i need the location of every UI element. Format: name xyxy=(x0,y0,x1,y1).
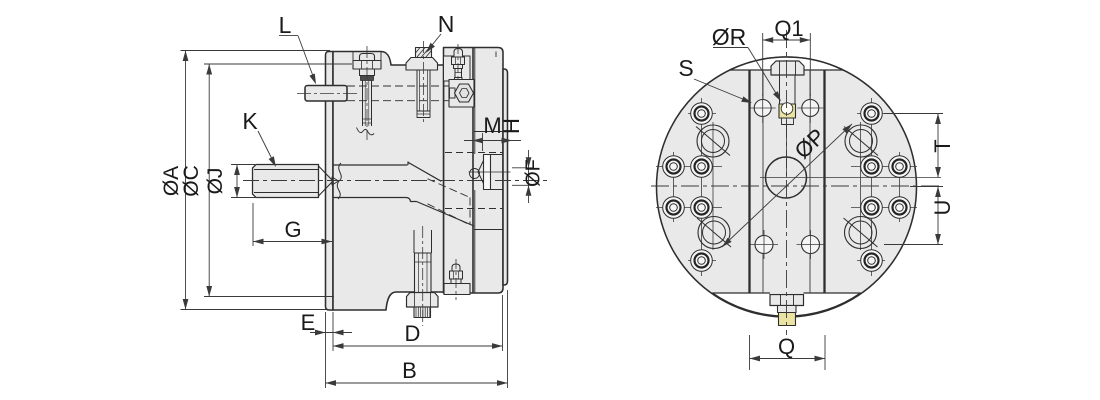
hex socket screw block xyxy=(449,80,474,108)
fitting stud xyxy=(362,81,364,127)
counterbore hole xyxy=(861,156,883,178)
dim M xyxy=(464,140,521,142)
slide channel edges xyxy=(748,70,750,293)
dowel circle xyxy=(470,169,480,179)
bolt N head (hatched) xyxy=(416,48,432,58)
counterbore hole xyxy=(663,197,685,219)
center bore xyxy=(766,157,807,198)
hex socket head xyxy=(450,88,456,98)
port bore xyxy=(491,154,504,156)
bolt N thread end xyxy=(417,111,430,118)
counterbore hole xyxy=(889,197,911,219)
bottom sliver xyxy=(712,293,860,316)
pin centerline xyxy=(297,92,359,94)
fitting ring xyxy=(360,69,375,76)
bottom valve (yellow) xyxy=(779,313,796,326)
top valve (yellow) xyxy=(779,104,796,118)
dim OP diagonal xyxy=(722,124,852,247)
shaft cone tip xyxy=(319,166,333,180)
knurled tip xyxy=(414,307,431,318)
bore step xyxy=(406,198,417,202)
Q1 holes xyxy=(754,100,771,117)
svg-text:ØJ: ØJ xyxy=(204,168,227,195)
dim OJ xyxy=(231,164,255,166)
threaded mount hole xyxy=(845,125,877,157)
counterbore hole xyxy=(889,156,911,178)
counterbore hole xyxy=(663,156,685,178)
port axis xyxy=(469,171,511,173)
shaft bore bottom line xyxy=(333,197,406,199)
counterbore hole xyxy=(691,103,713,125)
top sliver xyxy=(730,57,843,70)
stud tip squiggle xyxy=(357,128,375,135)
dim Q xyxy=(749,335,751,370)
hidden lines in flange xyxy=(445,152,503,154)
svg-text:T: T xyxy=(930,139,955,152)
svg-text:S: S xyxy=(678,55,693,81)
shaft bore top line xyxy=(333,164,408,166)
top chord wings xyxy=(730,69,771,71)
dim OC xyxy=(204,63,352,65)
bottom bolt stud xyxy=(415,253,432,293)
counterbore hole xyxy=(861,197,883,219)
svg-text:H: H xyxy=(499,118,524,134)
counterbore hole xyxy=(861,250,883,272)
fitting centerline xyxy=(366,46,368,140)
svg-text:K: K xyxy=(242,108,258,134)
bottom bolt counterbore xyxy=(413,230,415,253)
main body block xyxy=(333,52,444,311)
bottom grease fitting xyxy=(452,264,460,271)
face plate outer circle xyxy=(657,57,917,317)
dim T xyxy=(884,113,943,115)
hole centerlines xyxy=(656,166,722,168)
fitting dark band xyxy=(361,76,374,81)
fitting hex xyxy=(353,61,381,70)
svg-text:ØC: ØC xyxy=(180,165,203,197)
view centerlines xyxy=(651,185,941,187)
slide strip lines xyxy=(762,70,764,293)
right flange plate xyxy=(444,48,504,294)
dim G xyxy=(252,203,254,246)
bottom tab xyxy=(770,295,804,306)
body left end cap plate xyxy=(326,52,334,311)
port screw xyxy=(484,155,491,190)
dim E xyxy=(310,332,352,334)
svg-text:D: D xyxy=(405,321,421,346)
dim Q1 xyxy=(762,33,764,96)
svg-text:B: B xyxy=(402,358,417,383)
counterbore hole xyxy=(691,250,713,272)
top grease fitting (left) cap xyxy=(360,54,375,61)
bottom chord wings xyxy=(712,292,770,294)
threaded shaft K xyxy=(253,165,319,198)
counterbore hole xyxy=(691,197,713,219)
flange inner lines xyxy=(474,48,476,155)
svg-text:N: N xyxy=(438,11,455,37)
dim D xyxy=(333,345,503,347)
wedge slot solid diagonals xyxy=(408,162,442,181)
grease fitting top boss block xyxy=(444,56,471,81)
bottom bolt centerline xyxy=(422,226,424,326)
pin L xyxy=(305,86,347,102)
svg-text:G: G xyxy=(284,217,301,242)
counterbore hole xyxy=(691,156,713,178)
svg-text:L: L xyxy=(279,12,292,38)
dim OA xyxy=(181,50,331,52)
flange face line xyxy=(472,48,474,294)
threaded mount hole xyxy=(697,125,729,157)
svg-text:E: E xyxy=(301,310,316,335)
dim U xyxy=(910,186,943,188)
dim B xyxy=(326,382,508,384)
svg-text:U: U xyxy=(930,200,955,216)
hub edge xyxy=(407,162,409,166)
bolt N stud xyxy=(416,70,418,111)
bottom fitting base xyxy=(444,284,470,295)
outer adapter plate xyxy=(503,69,508,285)
bolt N centerline xyxy=(423,41,425,124)
svg-text:ØF: ØF xyxy=(523,159,545,187)
lower pair holes xyxy=(755,236,773,254)
svg-text:ØR: ØR xyxy=(712,24,747,50)
bottom nut xyxy=(407,293,439,308)
grease fitting top xyxy=(454,49,463,58)
top nut xyxy=(771,61,804,75)
main axis centerline xyxy=(243,180,548,182)
counterbore hole xyxy=(861,103,883,125)
svg-text:Q: Q xyxy=(778,334,795,359)
threaded mount hole xyxy=(698,217,730,249)
wedge hidden diagonals xyxy=(428,179,471,198)
top stud xyxy=(779,75,781,104)
bolt N boss xyxy=(406,58,438,71)
dim OF xyxy=(512,167,534,169)
break wave xyxy=(337,163,341,199)
svg-text:Q1: Q1 xyxy=(774,16,803,41)
threaded mount hole xyxy=(845,217,877,249)
pin hole hidden lines xyxy=(347,85,473,87)
